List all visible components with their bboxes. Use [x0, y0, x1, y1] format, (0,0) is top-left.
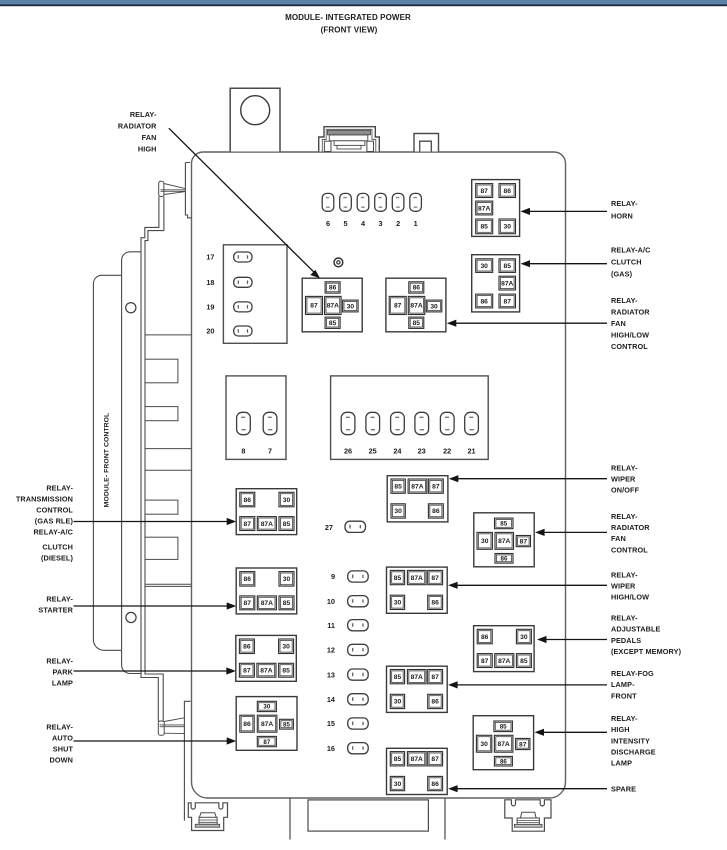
fuse 21: [465, 412, 479, 434]
svg-text:21: 21: [467, 447, 475, 456]
svg-text:RELAY-FOG: RELAY-FOG: [611, 669, 654, 678]
relay auto shut down: [236, 697, 297, 751]
fuse 11: [348, 620, 369, 631]
svg-text:FAN: FAN: [611, 534, 626, 543]
svg-text:RELAY-A/C: RELAY-A/C: [33, 528, 73, 537]
fuse 25: [366, 412, 380, 434]
svg-text:RELAY-: RELAY-: [46, 657, 73, 666]
svg-text:18: 18: [206, 278, 214, 287]
arrow radiator fan control: [544, 531, 607, 533]
relay radiator fan high/low control: [386, 278, 446, 332]
svg-text:RADIATOR: RADIATOR: [118, 122, 157, 131]
svg-text:RADIATOR: RADIATOR: [611, 523, 650, 532]
relay a/c clutch gas: [472, 255, 520, 312]
fuse 17: [234, 252, 252, 262]
svg-text:13: 13: [327, 670, 335, 679]
relay spare: [387, 748, 448, 794]
arrow a/c clutch: [529, 263, 607, 265]
bottom left foot: [188, 803, 227, 831]
svg-text:CLUTCH: CLUTCH: [42, 543, 73, 552]
fuse block 17-20: [223, 245, 287, 343]
fuse 27: [345, 521, 366, 532]
svg-text:HIGH: HIGH: [138, 145, 157, 154]
bottom mid posts: [290, 799, 445, 840]
arrow park lamp: [74, 670, 228, 672]
plate hole upper: [126, 303, 136, 313]
svg-text:1: 1: [414, 219, 418, 228]
svg-text:12: 12: [327, 646, 335, 655]
arrow fog lamp: [457, 684, 607, 686]
rail tooth 2: [145, 407, 178, 421]
relay wiper on/off: [387, 476, 448, 522]
tab hole: [241, 96, 270, 125]
svg-text:25: 25: [369, 447, 377, 456]
fuse 10: [348, 596, 369, 607]
bottom right foot: [505, 800, 551, 831]
arrow wiper on/off: [457, 478, 607, 480]
relay radiator fan high: [302, 278, 362, 332]
fuse 23: [415, 412, 429, 434]
fuse 14: [348, 694, 369, 705]
header bar: [0, 0, 727, 4]
svg-text:6: 6: [326, 219, 330, 228]
svg-text:22: 22: [443, 447, 451, 456]
arrow wiper high/low: [457, 584, 607, 586]
svg-text:RADIATOR: RADIATOR: [611, 307, 650, 316]
bullseye mark: [334, 258, 343, 267]
relay starter: [236, 568, 297, 614]
svg-text:HIGH/LOW: HIGH/LOW: [611, 330, 649, 339]
svg-text:27: 27: [325, 523, 333, 532]
fuse 16: [348, 743, 369, 754]
relay radiator fan control: [474, 513, 534, 567]
svg-text:15: 15: [327, 719, 335, 728]
arrow radiator fan high: [169, 128, 314, 272]
fuse 18: [234, 277, 252, 287]
svg-text:DISCHARGE: DISCHARGE: [611, 748, 656, 757]
svg-text:STARTER: STARTER: [38, 606, 73, 615]
svg-text:3: 3: [378, 219, 382, 228]
svg-text:RELAY-: RELAY-: [611, 512, 638, 521]
fuse 4: [357, 193, 369, 211]
fuse 26: [341, 412, 355, 434]
svg-text:5: 5: [343, 219, 347, 228]
svg-text:14: 14: [327, 695, 336, 704]
left outer plate: [93, 275, 121, 650]
svg-text:9: 9: [331, 572, 335, 581]
arrow horn: [529, 210, 607, 212]
svg-text:ADJUSTABLE: ADJUSTABLE: [611, 625, 661, 634]
svg-text:RELAY-: RELAY-: [46, 484, 73, 493]
svg-text:RELAY-: RELAY-: [46, 595, 73, 604]
fuse 2: [392, 193, 404, 211]
svg-text:HIGH: HIGH: [611, 725, 630, 734]
arrow auto shut down: [74, 740, 228, 742]
fuse 20: [234, 326, 252, 336]
relay transmission control: [236, 489, 297, 535]
relay wiper high/low: [387, 567, 448, 613]
svg-text:2: 2: [396, 219, 400, 228]
svg-text:20: 20: [206, 327, 214, 336]
bottom latch pin: [158, 701, 190, 820]
svg-text:26: 26: [344, 447, 352, 456]
svg-text:FAN: FAN: [142, 133, 157, 142]
fuse block 8-7: [226, 376, 286, 460]
relay horn: [472, 180, 520, 237]
svg-text:7: 7: [268, 447, 272, 456]
arrow adjustable pedals: [546, 639, 608, 641]
svg-text:(GAS): (GAS): [611, 270, 633, 279]
svg-text:CONTROL: CONTROL: [611, 545, 648, 554]
svg-text:CONTROL: CONTROL: [36, 506, 73, 515]
svg-text:INTENSITY: INTENSITY: [611, 736, 650, 745]
bottom mid slot: [308, 800, 428, 831]
svg-text:PARK: PARK: [52, 668, 73, 677]
svg-text:11: 11: [327, 621, 335, 630]
svg-text:PEDALS: PEDALS: [611, 636, 641, 645]
relay adjustable pedals: [474, 626, 534, 672]
plate hole lower: [126, 612, 136, 622]
relay fog lamp front: [387, 666, 448, 712]
svg-text:LAMP-: LAMP-: [611, 680, 635, 689]
top connector: [319, 127, 380, 152]
rail tooth 4: [145, 537, 178, 559]
fuse block 26-21: [331, 376, 489, 460]
svg-text:23: 23: [418, 447, 426, 456]
svg-text:16: 16: [327, 744, 335, 753]
fuse 24: [391, 412, 405, 434]
rail dividers: [145, 335, 192, 587]
svg-text:(FRONT VIEW): (FRONT VIEW): [321, 26, 378, 35]
svg-text:17: 17: [206, 253, 214, 262]
middle plate: [122, 252, 141, 674]
svg-text:RELAY-: RELAY-: [611, 614, 638, 623]
rail tooth 1: [145, 359, 178, 383]
arrow transmission control: [74, 521, 228, 523]
svg-text:RELAY-: RELAY-: [611, 199, 638, 208]
fuse 12: [348, 644, 369, 655]
fuse 19: [234, 302, 252, 312]
fuse 9: [348, 571, 369, 582]
fuse 8: [237, 412, 251, 434]
small top connector: [414, 134, 439, 152]
svg-text:TRANSMISSION: TRANSMISSION: [16, 495, 73, 504]
svg-text:RELAY-A/C: RELAY-A/C: [611, 246, 651, 255]
svg-text:FAN: FAN: [611, 319, 626, 328]
svg-text:LAMP: LAMP: [52, 679, 73, 688]
svg-text:24: 24: [393, 447, 402, 456]
fuse 6: [322, 193, 334, 211]
svg-text:(GAS RLE): (GAS RLE): [35, 517, 74, 526]
svg-text:HIGH/LOW: HIGH/LOW: [611, 593, 649, 602]
svg-text:CONTROL: CONTROL: [611, 342, 648, 351]
fuse 15: [348, 718, 369, 729]
fuse 3: [375, 193, 387, 211]
svg-text:WIPER: WIPER: [611, 474, 636, 483]
svg-text:AUTO: AUTO: [52, 734, 73, 743]
relay high intensity discharge lamp: [473, 716, 533, 770]
svg-text:RELAY-: RELAY-: [611, 296, 638, 305]
rail tooth 3: [145, 500, 178, 514]
svg-text:RELAY-: RELAY-: [611, 570, 638, 579]
svg-text:19: 19: [206, 303, 214, 312]
arrow starter: [74, 605, 228, 607]
fuse 13: [348, 669, 369, 680]
inner rail inner wall: [145, 197, 164, 722]
svg-text:(EXCEPT MEMORY): (EXCEPT MEMORY): [611, 647, 682, 656]
svg-text:SHUT: SHUT: [53, 745, 74, 754]
svg-text:(DIESEL): (DIESEL): [41, 554, 73, 563]
mounting tab with hole: [230, 88, 280, 151]
svg-text:RELAY-: RELAY-: [611, 714, 638, 723]
arrow spare: [457, 788, 607, 790]
module body outline: [192, 152, 566, 798]
svg-text:MODULE- FRONT CONTROL: MODULE- FRONT CONTROL: [104, 413, 111, 508]
svg-text:ON/OFF: ON/OFF: [611, 486, 640, 495]
svg-text:WIPER: WIPER: [611, 581, 636, 590]
svg-text:FRONT: FRONT: [611, 691, 637, 700]
svg-text:MODULE- INTEGRATED POWER: MODULE- INTEGRATED POWER: [285, 13, 411, 22]
relay park lamp: [236, 635, 296, 681]
fuse 5: [340, 193, 352, 211]
inner rail outer wall: [141, 197, 159, 722]
fuse 22: [440, 412, 454, 434]
svg-text:HORN: HORN: [611, 212, 633, 221]
svg-text:8: 8: [241, 447, 245, 456]
svg-text:DOWN: DOWN: [49, 756, 73, 765]
svg-text:RELAY-: RELAY-: [46, 723, 73, 732]
svg-text:10: 10: [327, 597, 335, 606]
svg-text:CLUTCH: CLUTCH: [611, 258, 642, 267]
fuse 1: [410, 193, 422, 211]
svg-text:LAMP: LAMP: [611, 759, 632, 768]
top latch pin: [159, 163, 192, 218]
svg-text:RELAY-: RELAY-: [611, 463, 638, 472]
fuse 7: [263, 412, 277, 434]
svg-text:SPARE: SPARE: [611, 784, 636, 793]
arrow high intensity discharge: [543, 731, 607, 733]
svg-text:RELAY-: RELAY-: [130, 110, 157, 119]
arrow radiator fan high/low: [455, 322, 607, 324]
